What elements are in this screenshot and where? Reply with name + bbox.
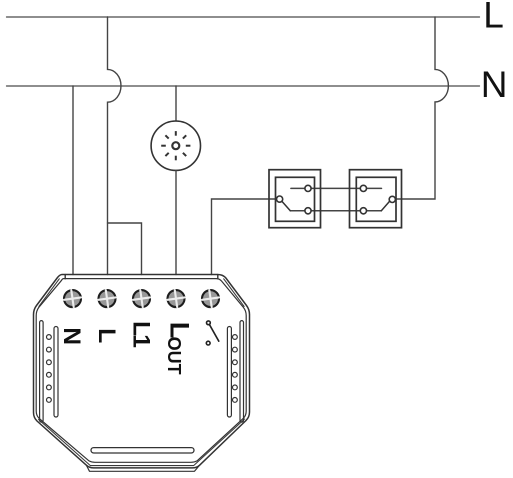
wire lamp to terminal L-OUT bbox=[175, 170, 177, 274]
node L label bbox=[483, 0, 504, 36]
wire traveler top between switches bbox=[291, 187, 382, 189]
vent holes right column bbox=[233, 335, 238, 403]
dimmer module U1 case outer outline bbox=[34, 275, 250, 468]
terminal label N bbox=[58, 327, 85, 345]
switch S1 (left two-way switch) bbox=[269, 170, 321, 228]
wire N rail to lamp bbox=[175, 86, 177, 121]
vent bar right inner bbox=[227, 327, 231, 418]
svg-text:L: L bbox=[483, 0, 504, 36]
dimmer module U1 case inner outline bbox=[36, 279, 246, 463]
terminal screw 2 (L) bbox=[97, 289, 116, 308]
wire L drop with hop over N bbox=[108, 17, 121, 275]
node N label bbox=[481, 64, 508, 105]
wire L branch to terminal L1 bbox=[108, 223, 142, 275]
terminal screw 5 (S) bbox=[201, 289, 220, 308]
terminal label L-OUT bbox=[164, 322, 195, 375]
terminal label L1 bbox=[128, 321, 155, 347]
switch S2 (right two-way switch) bbox=[350, 170, 402, 228]
dimmer module U1 mid rim line top-left chamfer bbox=[39, 279, 59, 307]
dimmer module U1 top band right end cap bbox=[217, 275, 219, 279]
wire switch S1 common to terminal S bbox=[212, 199, 277, 275]
wire N rail bbox=[7, 85, 480, 87]
bottom slot bbox=[91, 448, 194, 453]
wire N drop to terminal N bbox=[72, 86, 74, 275]
terminal screw 3 (L1) bbox=[132, 289, 151, 308]
terminal label L bbox=[93, 328, 120, 343]
lamp E1 bbox=[151, 121, 200, 170]
wire L drop to switch S2 (hop over N) bbox=[396, 17, 449, 199]
svg-text:LOUT: LOUT bbox=[164, 322, 195, 375]
svg-text:L1: L1 bbox=[128, 321, 155, 347]
dimmer module U1 mid rim line top-right chamfer bbox=[224, 279, 244, 307]
terminal screw 1 (N) bbox=[63, 289, 82, 308]
wire L rail bbox=[7, 16, 480, 18]
svg-text:N: N bbox=[481, 64, 508, 105]
terminal screw 4 (L-OUT) bbox=[166, 289, 185, 308]
svg-text:N: N bbox=[58, 327, 85, 345]
wire traveler bottom between switches bbox=[290, 210, 381, 212]
terminal switch icon (S) bbox=[206, 321, 219, 345]
svg-text:L: L bbox=[93, 328, 120, 343]
dimmer module U1 top band left end cap bbox=[64, 275, 66, 279]
dimmer module U1 bottom foot rim bbox=[87, 465, 200, 471]
dimmer module U1 mid rim line bottom bbox=[39, 419, 245, 466]
vent bar left inner bbox=[54, 327, 58, 418]
vent bar left outer bbox=[40, 321, 44, 423]
vent holes left column bbox=[47, 335, 52, 403]
vent bar right outer bbox=[240, 321, 244, 423]
